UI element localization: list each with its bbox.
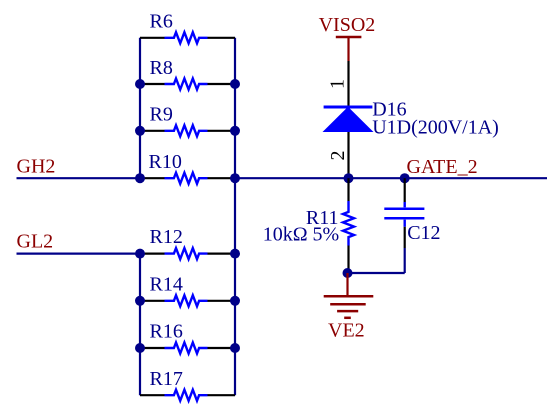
net label GL2: [17, 231, 54, 253]
junction C12 top: [400, 173, 410, 183]
resistor R8: [140, 79, 235, 90]
svg-text:1: 1: [327, 79, 349, 89]
svg-text:2: 2: [327, 151, 349, 161]
svg-text:R9: R9: [150, 104, 173, 126]
junction R16 left: [135, 343, 145, 353]
svg-text:R14: R14: [150, 273, 183, 295]
wire left rail bottom group: [139, 254, 141, 396]
resistor R11: [343, 178, 354, 273]
wire GL2: [17, 253, 141, 255]
junction R9 left: [135, 126, 145, 136]
svg-text:GL2: GL2: [17, 231, 54, 253]
svg-text:R12: R12: [150, 226, 183, 248]
svg-text:U1D(200V/1A): U1D(200V/1A): [372, 116, 499, 138]
junction R8 right: [230, 79, 240, 89]
resistor R9: [140, 125, 235, 136]
junction R9 right: [230, 126, 240, 136]
label U1D(200V/1A): [372, 116, 499, 138]
label R14: [150, 273, 183, 295]
ground VE2: [324, 273, 374, 318]
wire left rail top group: [139, 38, 141, 178]
net label VE2: [328, 320, 365, 342]
label 10kΩ 5%: [263, 224, 340, 246]
resistor R17: [140, 390, 235, 401]
label D16: [372, 99, 406, 121]
junction R12 left: [135, 249, 145, 259]
svg-text:VE2: VE2: [328, 320, 365, 342]
label R11: [306, 207, 339, 229]
net label GATE_2: [407, 156, 478, 178]
svg-text:R6: R6: [150, 11, 173, 33]
resistor R12: [140, 248, 235, 259]
junction R16 right: [230, 343, 240, 353]
junction R11 bottom / ground: [343, 268, 353, 278]
label R16: [150, 321, 183, 343]
junction R8 left: [135, 79, 145, 89]
resistor R10: [140, 173, 235, 184]
resistor R16: [140, 343, 235, 354]
svg-text:R17: R17: [150, 368, 183, 390]
svg-text:C12: C12: [407, 222, 440, 244]
junction R12 right: [230, 249, 240, 259]
svg-text:GH2: GH2: [17, 156, 56, 178]
svg-text:VISO2: VISO2: [319, 14, 376, 36]
wire GATE output: [235, 177, 547, 179]
capacitor C12: [384, 178, 424, 248]
label R6: [150, 11, 173, 33]
wire right rail: [234, 38, 236, 395]
svg-text:GATE_2: GATE_2: [407, 156, 478, 178]
resistor R6: [140, 32, 235, 43]
net label GH2: [17, 156, 56, 178]
power port VISO2: [336, 37, 362, 61]
junction R10 left: [135, 173, 145, 183]
wire C12 bottom: [348, 248, 405, 273]
junction R14 left: [135, 296, 145, 306]
svg-text:R10: R10: [149, 151, 182, 173]
pin number 2: [327, 151, 349, 161]
diode D16: [323, 107, 374, 178]
svg-text:R16: R16: [150, 321, 183, 343]
svg-text:10kΩ 5%: 10kΩ 5%: [263, 224, 340, 246]
wire GH2: [17, 177, 141, 179]
label R10: [149, 151, 182, 173]
label R9: [150, 104, 173, 126]
wire D16 pin 1: [347, 61, 349, 107]
label R8: [150, 57, 173, 79]
net label VISO2: [319, 14, 376, 36]
junction D16 pin 2 / R11: [344, 173, 354, 183]
svg-text:R8: R8: [150, 57, 173, 79]
junction R14 right: [230, 296, 240, 306]
label R17: [150, 368, 183, 390]
label R12: [150, 226, 183, 248]
resistor R14: [140, 295, 235, 306]
pin number 1: [327, 79, 349, 89]
label C12: [407, 222, 440, 244]
junction R10 right: [230, 173, 240, 183]
